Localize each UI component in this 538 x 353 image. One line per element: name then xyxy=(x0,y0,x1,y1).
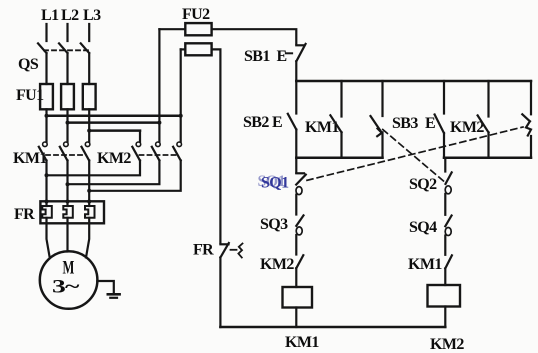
wire L3 to QS xyxy=(88,24,90,41)
wire FR contact to bottom bus xyxy=(219,258,221,328)
wire SQ2-NO upper xyxy=(381,81,383,116)
svg-text:FR: FR xyxy=(14,206,35,223)
relay FR box xyxy=(40,201,104,223)
wire SQ3 to KM2 NC xyxy=(295,235,297,255)
svg-text:E: E xyxy=(425,115,435,132)
contact KM1 aux NO xyxy=(330,115,341,132)
node junction FU2tap-bus2 xyxy=(157,121,161,125)
fuse FU2 element 1 xyxy=(185,23,211,35)
wire phase1 bus to KM2 pole3 xyxy=(47,114,181,117)
fuse FU2 element 2 xyxy=(185,43,211,55)
wire KM2 pole2 output to phase2 xyxy=(68,161,160,185)
mechanical link dashed SQ2 to mid contact xyxy=(383,130,444,182)
wire FU1-2 down to KM1 pole2 xyxy=(66,109,68,142)
svg-text:L3: L3 xyxy=(83,7,101,24)
wire KM2 aux upper xyxy=(487,81,489,117)
switch QS pole 2 blade xyxy=(59,43,67,53)
svg-text:SB2: SB2 xyxy=(243,114,269,131)
wire to SQ1 xyxy=(295,158,297,173)
wire KM1 pole3 output xyxy=(88,161,90,207)
relay FR heater element 2 xyxy=(63,206,73,218)
svg-text:KM2: KM2 xyxy=(97,150,131,167)
limit switch SQ2 roller xyxy=(445,186,451,194)
wire QS pole1 to FU1 xyxy=(45,53,47,84)
wire SB2 upper xyxy=(295,81,297,114)
ground symbol xyxy=(108,293,120,296)
wire KM1 pole2 output xyxy=(66,161,68,207)
wire motor to ground xyxy=(97,281,114,294)
node dot FR wire3 xyxy=(87,200,91,204)
contactor KM2 pole2 terminal circle xyxy=(156,142,161,147)
contactor KM1 pole1 terminal circle xyxy=(43,142,48,147)
wire QS pole3 to FU1 xyxy=(88,53,90,84)
wire to SQ2 xyxy=(444,158,446,172)
svg-text:L1: L1 xyxy=(41,7,59,24)
contactor KM2 pole1 terminal circle xyxy=(136,142,141,147)
switch QS pole 1 blade xyxy=(38,43,46,53)
node junction outputs phase1 xyxy=(45,173,49,177)
relay FR heater element 1 xyxy=(42,206,52,218)
fuse FU1 element 3 xyxy=(83,84,96,109)
wire KM2 pole2 feed from FU2 tap xyxy=(158,29,160,142)
contactor KM1 pole1 blade xyxy=(39,147,47,161)
contactor KM2 linkage dashes xyxy=(140,154,180,156)
wire QS pole2 to FU1 xyxy=(66,53,68,84)
relay FR thermal actuator xyxy=(231,249,237,251)
svg-text:KM1: KM1 xyxy=(285,334,319,351)
limit switch SQ4 NC contact xyxy=(445,216,451,227)
button SB1 NC contact xyxy=(296,44,304,46)
wire SQ1-NO upper xyxy=(530,81,532,114)
wire KM2 NC to coil xyxy=(295,268,297,287)
contactor KM1 linkage dashes xyxy=(46,154,86,156)
wire L1 to QS xyxy=(45,24,47,41)
wire SQ4 to KM1 NC xyxy=(444,236,446,255)
limit switch SQ1 roller xyxy=(296,187,302,195)
contactor KM2 pole2 blade xyxy=(152,147,160,161)
svg-text:KM2: KM2 xyxy=(430,336,464,353)
wire top bus xyxy=(296,80,531,83)
wire KM1 NC to coil xyxy=(444,268,446,285)
svg-text:E: E xyxy=(277,48,287,65)
limit switch SQ3 NC contact xyxy=(296,215,303,226)
wire KM2 pole3 output to phase3 xyxy=(89,161,181,191)
wire block bottom bus left xyxy=(296,156,382,159)
wire KM1 aux upper xyxy=(340,81,342,117)
fuse FU1 element 2 xyxy=(61,84,74,109)
wire SB2 lower xyxy=(295,130,297,158)
svg-text:SB1: SB1 xyxy=(244,48,270,65)
wire bottom bus xyxy=(220,326,445,329)
wire coil KM2 to bottom bus xyxy=(444,307,446,328)
svg-text:KM2: KM2 xyxy=(450,119,484,136)
wire FU2-2 right to control bus xyxy=(212,49,221,243)
relay FR NC contact xyxy=(220,243,228,245)
wire phase2 bus to KM2 pole2 xyxy=(68,121,160,124)
contact KM2 aux NO xyxy=(478,115,489,132)
limit switch SQ2 NC contact xyxy=(446,172,452,184)
wire KM2 pole1 feed xyxy=(139,131,141,142)
limit switch SQ4 roller xyxy=(445,228,451,236)
wire FR1 to motor xyxy=(47,218,50,258)
wire SQ2-NO lower xyxy=(381,132,383,157)
node junction FU2tap-bus1 xyxy=(179,114,183,118)
svg-text:SQ4: SQ4 xyxy=(409,219,437,236)
svg-text:FR: FR xyxy=(193,242,214,259)
fuse FU1 element 1 xyxy=(40,84,53,109)
wire block bottom bus right xyxy=(444,156,531,159)
wire FU1-3 down to KM1 pole3 xyxy=(88,109,90,142)
svg-text:M: M xyxy=(63,258,75,279)
node dot FR wire1 xyxy=(45,200,49,204)
coil KM2 xyxy=(428,285,461,307)
wire SB1 to top bus xyxy=(295,61,297,81)
contact SQ1 linked NO xyxy=(522,114,530,121)
svg-text:L2: L2 xyxy=(61,7,79,24)
limit switch SQ3 roller xyxy=(296,227,302,235)
svg-text:3~: 3~ xyxy=(52,277,80,298)
contact KM2 NC interlock xyxy=(296,255,303,268)
coil KM1 xyxy=(283,287,313,308)
button SB3 NO contact xyxy=(435,115,444,134)
wire phase3 bus to KM2 pole1 xyxy=(89,129,140,132)
contactor KM2 pole1 blade xyxy=(132,147,140,161)
contactor KM1 pole2 blade xyxy=(60,147,68,161)
svg-text:QS: QS xyxy=(18,56,39,73)
node junction phase1-bus xyxy=(45,114,49,118)
wire KM1 pole1 output xyxy=(45,161,47,207)
contactor KM2 pole3 terminal circle xyxy=(177,142,182,147)
wire FU2-2 left xyxy=(181,48,186,50)
wire SQ2 to SQ4 xyxy=(444,194,446,215)
node junction phase3-bus xyxy=(87,129,91,133)
node junction outputs phase2 xyxy=(66,182,70,186)
wire SB3 upper xyxy=(443,81,445,114)
wire KM2 pole1 output to phase1 xyxy=(47,161,141,176)
mechanical link dashed SQ1 to right contact xyxy=(307,127,523,180)
switch QS linkage dashes xyxy=(44,49,88,51)
svg-text:SB3: SB3 xyxy=(392,115,418,132)
node junction phase2-bus xyxy=(66,121,70,125)
wire SB3 lower xyxy=(443,133,445,158)
wire FU2-1 right to SB1 xyxy=(212,29,297,44)
wire FU1-1 down to KM1 pole1 xyxy=(45,109,47,142)
contactor KM1 pole3 terminal circle xyxy=(85,142,90,147)
wire KM2 aux lower xyxy=(487,132,489,157)
svg-text:E: E xyxy=(272,114,282,131)
wire KM2 pole3 feed from FU2 tap xyxy=(180,49,182,141)
wire SQ1 to SQ3 xyxy=(295,195,297,215)
contactor KM1 pole2 terminal circle xyxy=(64,142,69,147)
svg-text:KM1: KM1 xyxy=(408,256,442,273)
contact KM1 NC interlock xyxy=(445,255,452,268)
wire FU2-1 left xyxy=(159,28,185,30)
relay FR heater element 3 xyxy=(85,206,95,218)
switch QS pole 3 blade xyxy=(81,43,89,53)
svg-text:SQ3: SQ3 xyxy=(260,216,288,233)
contactor KM2 pole3 blade xyxy=(173,147,181,161)
node junction outputs phase3 xyxy=(87,189,91,193)
wire FR2 to motor xyxy=(66,218,68,252)
wire L2 to QS xyxy=(66,24,68,41)
svg-text:FU2: FU2 xyxy=(182,6,210,23)
svg-text:SQ2: SQ2 xyxy=(409,176,437,193)
button SB2 NO contact xyxy=(288,114,297,130)
contact SQ2 linked NO xyxy=(371,116,382,132)
wire KM1 aux lower xyxy=(340,132,342,157)
wire coil KM1 to bottom bus xyxy=(295,308,297,328)
svg-text:SQ1: SQ1 xyxy=(258,173,286,190)
wire FR3 to motor xyxy=(86,218,89,258)
wire SQ1-NO lower xyxy=(530,136,532,158)
node dot FR wire2 xyxy=(66,200,70,204)
motor M circle xyxy=(40,251,98,309)
contactor KM1 pole3 blade xyxy=(82,147,90,161)
svg-text:KM2: KM2 xyxy=(260,256,294,273)
limit switch SQ1 NC contact xyxy=(296,172,304,174)
